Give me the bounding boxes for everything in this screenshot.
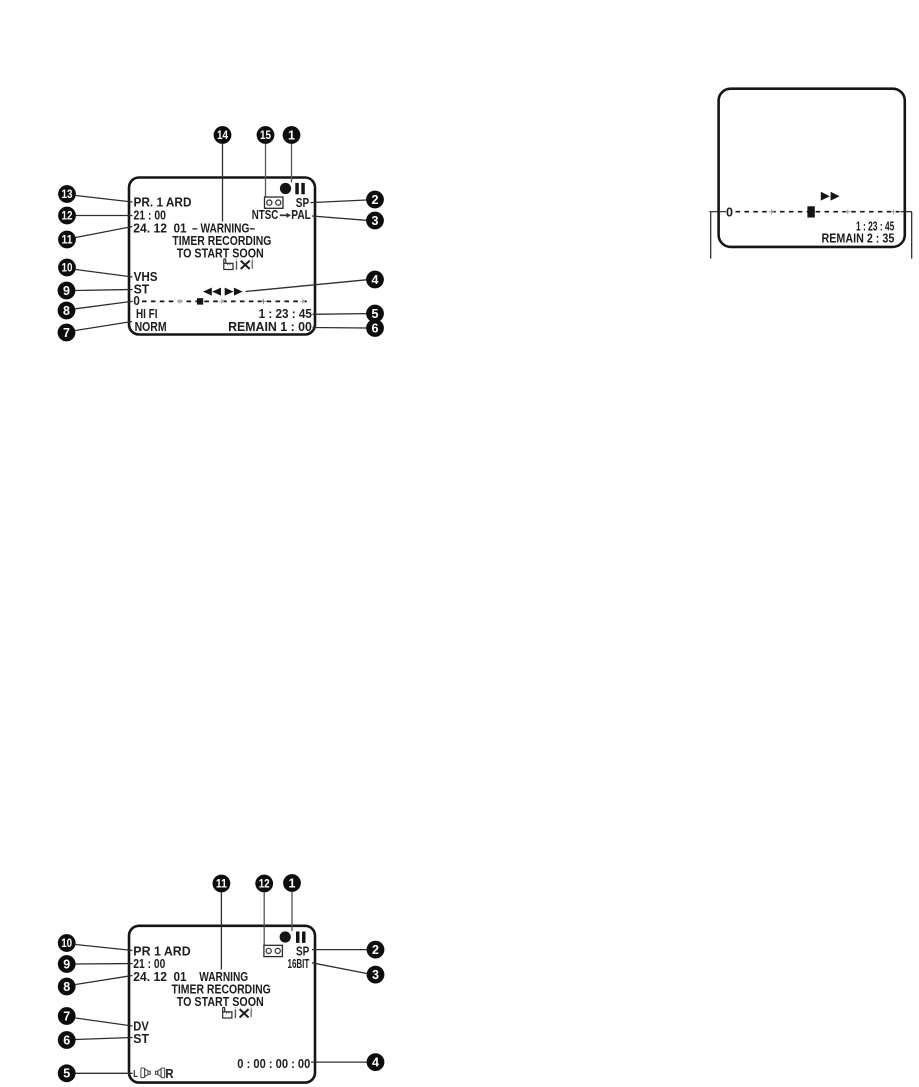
svg-text:4: 4 bbox=[372, 273, 379, 287]
svg-text:TO START SOON: TO START SOON bbox=[177, 994, 264, 1009]
svg-text:3: 3 bbox=[372, 968, 379, 982]
svg-text:L: L bbox=[133, 1068, 138, 1080]
svg-text:10: 10 bbox=[62, 263, 73, 275]
svg-text:24. 12: 24. 12 bbox=[133, 969, 167, 984]
svg-text:0 : 00 : 00 : 00: 0 : 00 : 00 : 00 bbox=[237, 1056, 310, 1071]
svg-text:9: 9 bbox=[63, 957, 70, 971]
svg-text:11: 11 bbox=[62, 235, 74, 247]
svg-text:0: 0 bbox=[726, 204, 733, 219]
svg-text:REMAIN 2 : 35: REMAIN 2 : 35 bbox=[822, 231, 895, 246]
svg-text:3: 3 bbox=[372, 214, 379, 228]
svg-text:ST: ST bbox=[133, 1031, 149, 1046]
svg-text:5: 5 bbox=[372, 307, 379, 321]
svg-text:8: 8 bbox=[63, 980, 70, 994]
svg-text:2: 2 bbox=[372, 193, 379, 207]
svg-text:NORM: NORM bbox=[135, 319, 167, 334]
svg-text:NTSC: NTSC bbox=[252, 207, 279, 222]
svg-text:7: 7 bbox=[63, 326, 70, 340]
svg-text:7: 7 bbox=[63, 1009, 70, 1023]
svg-text:8: 8 bbox=[63, 304, 70, 318]
svg-text:R: R bbox=[165, 1066, 174, 1081]
svg-text:13: 13 bbox=[62, 189, 73, 201]
svg-text:12: 12 bbox=[259, 879, 270, 891]
svg-text:12: 12 bbox=[62, 211, 73, 223]
svg-text:15: 15 bbox=[260, 130, 272, 142]
svg-text:9: 9 bbox=[63, 284, 70, 298]
svg-text:2: 2 bbox=[372, 943, 379, 957]
svg-text:14: 14 bbox=[217, 130, 229, 142]
svg-text:1: 1 bbox=[288, 128, 295, 142]
svg-text:REMAIN 1 : 00: REMAIN 1 : 00 bbox=[228, 319, 312, 334]
svg-text:6: 6 bbox=[372, 321, 379, 335]
svg-text:10: 10 bbox=[61, 938, 72, 950]
svg-text:5: 5 bbox=[63, 1067, 70, 1081]
svg-text:16BIT: 16BIT bbox=[288, 956, 310, 971]
svg-text:6: 6 bbox=[63, 1033, 70, 1047]
svg-text:1: 1 bbox=[289, 876, 296, 890]
svg-text:24. 12: 24. 12 bbox=[133, 220, 167, 235]
svg-text:4: 4 bbox=[372, 1056, 379, 1070]
svg-text:11: 11 bbox=[216, 879, 228, 891]
svg-text:TO START SOON: TO START SOON bbox=[177, 245, 264, 260]
svg-text:PAL: PAL bbox=[291, 207, 311, 222]
